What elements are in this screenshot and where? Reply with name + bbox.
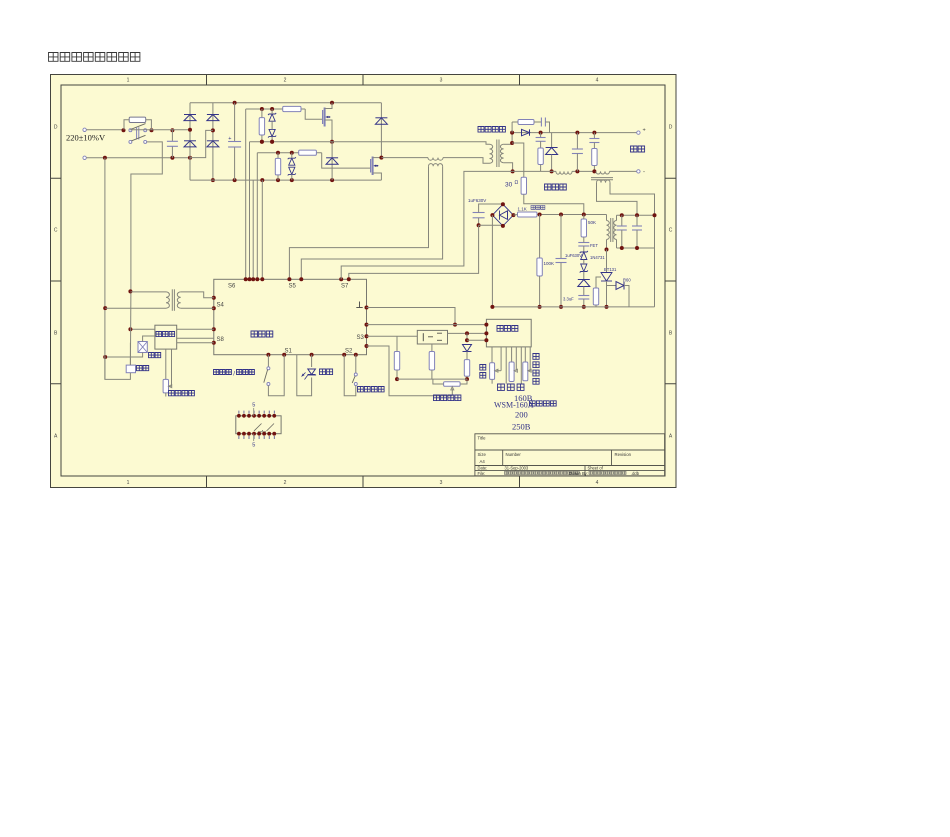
diode D1b — [184, 140, 196, 142]
diode D1d — [207, 140, 219, 142]
svg-text:Date:: Date: — [478, 466, 488, 471]
svg-text:200: 200 — [515, 410, 528, 420]
wire input N — [86, 157, 189, 159]
svg-text:2: 2 — [284, 77, 287, 83]
wire valve board input — [130, 328, 155, 330]
wire snubber cap rail bottom — [617, 247, 655, 249]
wire ground route to pulse board — [367, 308, 456, 325]
zener ZD b — [581, 264, 587, 272]
wire Q1 source — [325, 120, 332, 142]
svg-text:1: 1 — [127, 480, 130, 486]
label 风扇 — [137, 366, 149, 371]
zener ZD 1N4731 — [581, 252, 587, 260]
svg-text:S7: S7 — [341, 284, 349, 290]
svg-text:5: 5 — [252, 443, 255, 449]
wire Q1 drain — [325, 103, 332, 109]
output snubber resistor — [511, 122, 513, 133]
transistor Q2 MOSFET — [370, 159, 372, 173]
capacitor C-out mid — [576, 133, 578, 149]
label 频率 vertical — [480, 365, 486, 379]
bridge column 1 — [189, 103, 191, 180]
wire CT secondary to S5 pin 1 — [289, 166, 428, 279]
arc transformer T3 secondary winding — [597, 180, 611, 183]
wire left vertical N feed — [104, 158, 106, 380]
potentiometer P3 基值电流 — [523, 362, 528, 381]
page title 主电路电气原理图 — [49, 53, 140, 62]
label 焊枪开关 — [358, 387, 385, 392]
pulse board left pin dots — [484, 323, 488, 327]
border column ticks — [206, 75, 208, 86]
diode D1a — [184, 114, 196, 116]
capacitor C-chain — [578, 242, 589, 244]
pulse transformer T2 core — [610, 218, 612, 242]
svg-text:4: 4 — [596, 77, 599, 83]
label 基值电流 vertical — [533, 354, 539, 385]
wire input L — [86, 129, 123, 131]
wire bridge left corner to pulse board rail — [491, 215, 493, 307]
wire S6 bundle to control board — [245, 109, 247, 279]
border row ticks — [51, 177, 62, 179]
wire gate jog Q1 — [305, 109, 322, 119]
inductor L2 — [596, 171, 610, 174]
svg-text:3: 3 — [440, 77, 443, 83]
wire T3 sec left leg — [597, 183, 638, 216]
svg-text:250B: 250B — [512, 422, 531, 432]
diode D3 — [375, 117, 387, 119]
title block table — [475, 434, 665, 476]
capacitor C-arc input — [473, 212, 485, 214]
label 主变压器 — [478, 127, 505, 133]
wire diode branch to pulse board — [466, 333, 468, 340]
svg-text:100K: 100K — [544, 261, 555, 266]
S1 pin dots — [266, 353, 270, 357]
label 引弧板 — [545, 184, 567, 190]
ground pin symbol — [359, 302, 361, 308]
wire 30R to 50K chain — [524, 194, 584, 214]
svg-text:1uF630V: 1uF630V — [468, 198, 486, 203]
bridge rectifier B2 diamond — [492, 204, 513, 226]
fan transformer T4 right winding — [177, 292, 180, 308]
svg-text:FET: FET — [590, 243, 598, 248]
svg-text:S4: S4 — [217, 303, 225, 309]
diode D-trigger — [578, 279, 590, 281]
svg-text:Revision: Revision — [615, 452, 632, 457]
wire valve board to S8 x3 — [177, 328, 214, 330]
wire output - rail — [513, 170, 556, 172]
potentiometer 电流调节 — [444, 382, 461, 387]
output snubber capacitor — [534, 121, 541, 123]
wire S3 mid to sensor box — [367, 335, 418, 337]
relay contact K1a — [129, 129, 132, 132]
wire Q2 drain — [373, 157, 382, 159]
wire CT secondary to S5 pin 2 — [301, 166, 442, 279]
resistor R-sn2 vertical — [277, 153, 279, 159]
svg-text:C: C — [669, 228, 673, 234]
svg-text:-: - — [643, 170, 645, 176]
wire CT to main transformer — [443, 158, 490, 164]
svg-text:S3: S3 — [357, 335, 365, 341]
wire S3 top to pulse board — [367, 324, 487, 326]
wire gate row 2 — [257, 152, 321, 154]
wire T1 secondary bottom — [504, 163, 513, 172]
wire pot wiper to S3 bottom — [367, 346, 453, 396]
resistor R 1.1K — [518, 212, 538, 217]
svg-text:Ω: Ω — [515, 180, 519, 186]
diode D4 output — [522, 129, 530, 135]
wire left vertical L feed — [129, 291, 132, 365]
S6 pin dots — [244, 277, 248, 281]
svg-text:S8: S8 — [217, 337, 225, 343]
svg-text:1uF630V: 1uF630V — [565, 253, 582, 258]
svg-text:220±10%V: 220±10%V — [66, 133, 106, 143]
connector J1 body — [236, 416, 281, 434]
svg-text:C: C — [54, 228, 58, 234]
current transformer CT primary — [428, 158, 443, 161]
svg-text:31-Sep-2003: 31-Sep-2003 — [505, 466, 529, 471]
resistor R-fb — [464, 360, 469, 377]
svg-text:S2: S2 — [345, 349, 353, 355]
svg-text:2: 2 — [284, 480, 287, 486]
capacitor CX across mains — [171, 130, 173, 142]
pot 滞后关气 — [165, 349, 167, 379]
switch SW1 氩弧焊/手弧焊 — [267, 355, 269, 367]
wire relay resistor legs — [124, 120, 129, 130]
svg-text:D: D — [54, 125, 58, 131]
wire sensor to pulse board — [448, 332, 487, 334]
wire T2 secondary top — [616, 215, 618, 220]
S3 pin dots — [365, 323, 369, 327]
wire mains to bridge — [172, 129, 190, 131]
inner border frame — [61, 85, 665, 476]
wire top rail drop — [380, 103, 382, 158]
main control board 主控板 — [214, 279, 367, 354]
wire T1 secondary top — [504, 143, 512, 145]
capacitor C-filter electrolytic — [234, 103, 236, 142]
relay contact K1b — [129, 140, 132, 143]
svg-text:A4: A4 — [480, 459, 486, 464]
label 输出 — [631, 146, 645, 152]
svg-text:D: D — [669, 125, 673, 131]
transistor Q1 MOSFET — [322, 110, 324, 124]
gas valve 气阀 — [138, 342, 147, 353]
wire to output - terminal — [610, 170, 638, 172]
title block file path — [505, 471, 580, 474]
potentiometer P1 频率 — [490, 363, 495, 380]
wire to resistor 30R — [512, 143, 524, 177]
wire DC+ top rail — [190, 102, 381, 104]
fan transformer T4 left winding — [130, 291, 166, 293]
svg-text:Title: Title — [478, 435, 487, 440]
pulse transformer T2 primary — [607, 221, 610, 240]
capacitor-resistor chain B — [593, 133, 595, 139]
capacitor-resistor chain A — [540, 133, 542, 138]
wire S7 pin2 route — [349, 225, 479, 279]
arc transformer T3 core — [591, 177, 613, 179]
label 电源 — [320, 369, 333, 375]
svg-text:S6: S6 — [228, 284, 236, 290]
input terminal L — [83, 128, 86, 131]
label 气阀 — [149, 353, 161, 358]
svg-text:Sheet of: Sheet of — [588, 466, 604, 471]
diode D5 — [551, 133, 553, 148]
svg-text:/: / — [233, 370, 235, 377]
diode D1c — [207, 114, 219, 116]
resistor R-soft-start (relay bypass) — [129, 117, 146, 122]
inductor L1 — [556, 171, 572, 174]
svg-text:File:: File: — [478, 471, 486, 476]
wire DC- bottom rail — [190, 179, 381, 181]
capacitor C-spark b — [636, 215, 638, 226]
label 滞后关气 — [169, 391, 195, 396]
label 占空比 — [498, 384, 525, 390]
zener ZD2a — [289, 158, 295, 165]
svg-text:.ddb: .ddb — [631, 471, 640, 476]
label 氩弧焊/手弧焊 — [214, 370, 232, 375]
S7 pin1 route to output - rail — [341, 171, 512, 279]
output terminal - — [637, 170, 640, 173]
wire Q2 source — [373, 173, 382, 180]
S8 pin dots — [212, 327, 216, 331]
svg-text:1.1K: 1.1K — [518, 207, 527, 212]
pulse board bottom pins — [491, 347, 493, 363]
svg-text:S5: S5 — [289, 284, 297, 290]
S5 pin dots — [287, 277, 291, 281]
potentiometer P2 占空比 — [509, 362, 514, 382]
transformer T1 core — [496, 140, 498, 168]
wire gate jog Q2 — [322, 153, 371, 168]
connector J1 bottom pins — [237, 432, 241, 436]
relay link bars — [136, 127, 138, 139]
resistor R-g1 horizontal — [283, 106, 301, 111]
svg-text:WSM-160A: WSM-160A — [494, 401, 534, 410]
output terminal + — [637, 131, 640, 134]
S2 pin dots — [342, 353, 346, 357]
svg-text:Drawn By:: Drawn By: — [569, 471, 588, 476]
wire cap to bridge bottom — [479, 224, 503, 226]
connector J1 top pins — [237, 414, 241, 418]
svg-text:+: + — [643, 128, 646, 134]
junction dots input rows — [122, 128, 126, 132]
wire AC2 jog — [190, 130, 213, 157]
zener ZD2b — [289, 167, 295, 174]
S4 pin dots — [212, 296, 216, 300]
zener ZD1a — [269, 114, 275, 121]
resistor R-b — [431, 344, 433, 352]
wire T3 sec right leg — [610, 183, 655, 307]
wire trigger row — [537, 214, 607, 216]
capacitor C-spark a — [621, 215, 623, 226]
current transformer CT secondary — [429, 164, 443, 167]
input terminal N — [83, 156, 86, 159]
fan 风扇 — [129, 343, 131, 365]
svg-text:1: 1 — [127, 77, 130, 83]
resistor R-gate SCR — [596, 277, 601, 288]
switch SW2 焊枪开关 — [344, 355, 356, 396]
wire T4 secondary to S4 — [181, 292, 214, 298]
connector J1 internal contacts — [254, 424, 262, 432]
svg-text:+: + — [228, 136, 231, 142]
schematic sheet background — [51, 75, 677, 488]
wire T2 primary bottom — [606, 240, 608, 250]
wire bottom row — [397, 378, 467, 380]
svg-text:Size: Size — [478, 452, 487, 457]
label 电流调节 — [434, 395, 461, 401]
wire relay to fan-transformer feed — [130, 129, 173, 131]
transformer T1 secondary winding — [500, 144, 503, 162]
bridge column 2 — [212, 103, 214, 180]
svg-text:50K: 50K — [588, 220, 596, 225]
gas valve board 气阀板 — [155, 325, 177, 349]
svg-text:3: 3 — [440, 480, 443, 486]
transformer T1 primary winding — [490, 144, 493, 163]
capacitor C 3.3uF — [578, 295, 589, 297]
resistor R-g2 horizontal — [299, 150, 317, 155]
svg-text:5: 5 — [252, 403, 255, 409]
diode D2 freewheel — [331, 142, 333, 180]
wire arc board ground rail — [492, 306, 654, 308]
wire mid rail to transformer primary — [250, 142, 490, 145]
resistor R-a — [396, 336, 398, 351]
wire T2 secondary bottom — [616, 240, 618, 249]
resistor R-sn1 vertical — [261, 109, 263, 118]
wire gate row 1 — [246, 108, 306, 110]
S7 pin dots — [339, 277, 343, 281]
svg-text:BT131: BT131 — [604, 267, 617, 272]
svg-text:4: 4 — [596, 480, 599, 486]
LED 电源 — [308, 369, 316, 375]
wire Q2 node to CT — [381, 157, 428, 159]
svg-text:1N4731: 1N4731 — [590, 255, 605, 260]
zener ZD1b — [269, 129, 275, 136]
svg-text:Number: Number — [506, 452, 522, 457]
svg-text:30: 30 — [505, 182, 513, 189]
diode D-fb — [463, 345, 472, 352]
svg-text:3.3uF: 3.3uF — [563, 297, 574, 302]
pulse board 脉冲板 — [486, 319, 531, 347]
fan transformer T4 core — [171, 289, 173, 311]
wire output + rail — [512, 132, 637, 134]
resistor R 100K — [539, 215, 541, 259]
LED power indicator loop — [297, 355, 312, 396]
sensor box (current detector) — [417, 330, 447, 344]
resistor R 30Ω — [521, 177, 526, 194]
pulse transformer T2 secondary — [614, 221, 617, 240]
wire snubber cap rail top — [617, 214, 655, 216]
